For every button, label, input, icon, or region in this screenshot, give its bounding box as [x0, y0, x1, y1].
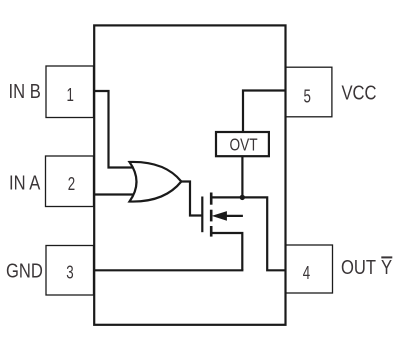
transistor Q1 body arrow line [226, 215, 243, 217]
node drain junction dot [240, 195, 245, 200]
IC body outline [94, 25, 285, 324]
label OUT Y with overline [341, 256, 392, 279]
pin 4 box [285, 245, 332, 293]
transistor Q1 channel dash source [210, 226, 213, 237]
OR gate U1 [130, 162, 182, 202]
svg-text:GND: GND [6, 259, 43, 282]
pin 1 box [46, 66, 94, 118]
wire source down to GND rail [211, 233, 242, 270]
svg-text:Y: Y [381, 256, 392, 279]
wire GND pin3 rail [94, 269, 244, 271]
pin 3 box [46, 246, 94, 296]
wire drain to output corner [211, 197, 285, 270]
svg-text:3: 3 [66, 262, 73, 283]
svg-text:OUT: OUT [341, 256, 376, 279]
svg-text:2: 2 [68, 174, 75, 195]
wire OR output to MOSFET gate [181, 182, 201, 216]
transistor Q1 body arrow head [212, 211, 227, 221]
svg-text:VCC: VCC [342, 81, 377, 104]
wire pin1 to OR gate top input [94, 91, 134, 168]
transistor Q1 channel dash drain [210, 193, 213, 205]
transistor Q1 channel dash body [210, 210, 213, 222]
svg-text:1: 1 [66, 85, 73, 106]
pin 2 box [46, 156, 94, 207]
svg-text:4: 4 [303, 263, 310, 284]
transistor Q1 gate bar [201, 197, 203, 233]
svg-text:OVT: OVT [229, 136, 257, 155]
svg-text:IN B: IN B [9, 80, 41, 103]
wire drain node up to OVT [241, 156, 243, 197]
svg-text:5: 5 [303, 86, 310, 107]
svg-text:IN A: IN A [9, 171, 41, 194]
pin 5 box [285, 67, 332, 117]
wire VCC pin5 to OVT top [243, 91, 286, 133]
OVT block [216, 132, 269, 156]
wire pin2 to OR gate bottom input [94, 193, 137, 195]
